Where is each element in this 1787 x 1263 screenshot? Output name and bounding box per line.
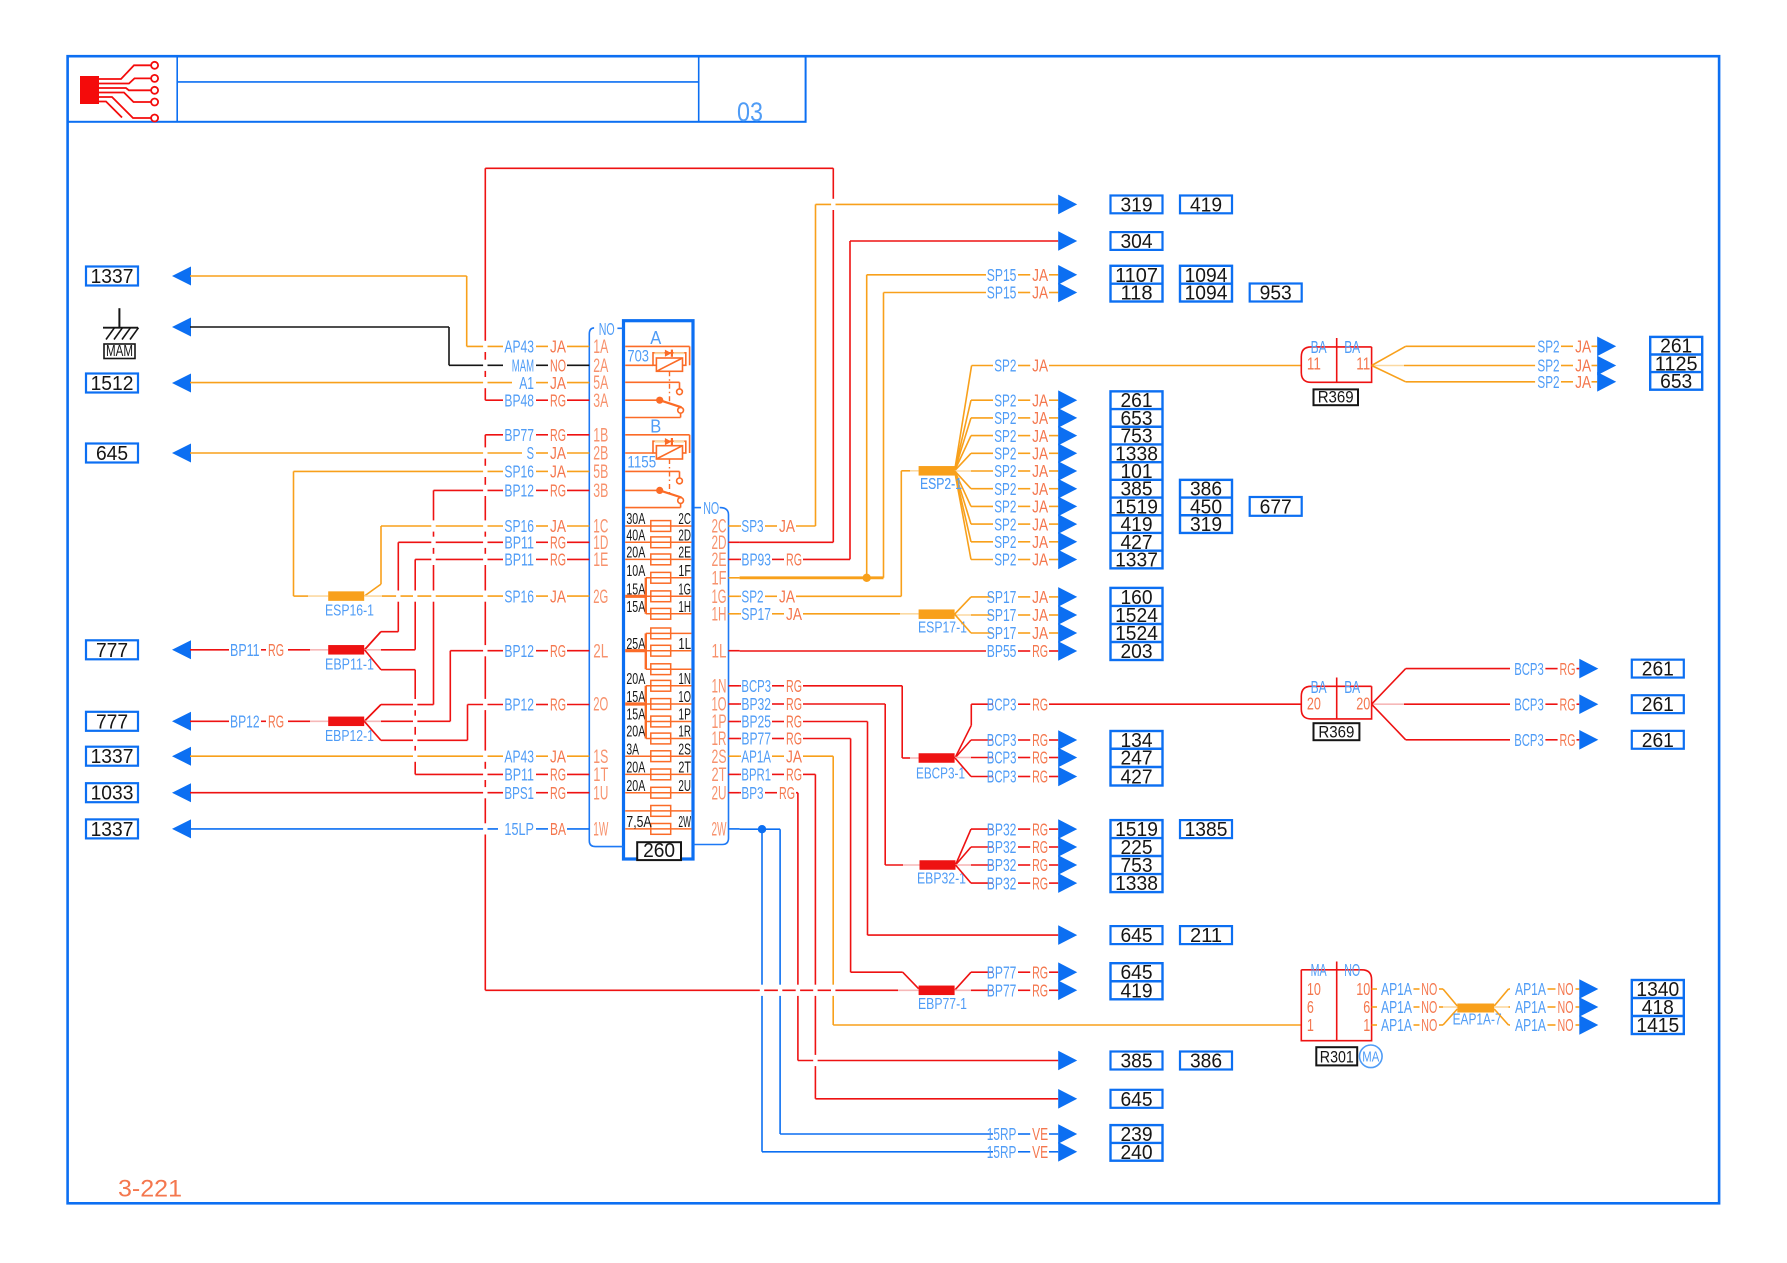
junction dot on 2W wire	[758, 825, 766, 833]
wire SP2-JA fan row 7	[955, 471, 1059, 507]
fuse 20A 2T	[625, 760, 691, 780]
wire SP2-JA fan row 10	[955, 471, 1059, 560]
connector R301	[1301, 960, 1371, 1040]
label SP16-JA (5B)	[504, 462, 566, 482]
label SP2-JA (far right)	[1537, 337, 1597, 357]
label SP16-JA (2G)	[504, 586, 566, 606]
svg-text:1337: 1337	[91, 746, 134, 768]
svg-text:6: 6	[1363, 997, 1370, 1017]
pin 2W (right)	[712, 820, 740, 841]
wire SP2-JA fan row 4	[955, 453, 1059, 471]
net box 645 (row 1099)	[1111, 1089, 1163, 1111]
svg-text:BP93: BP93	[741, 550, 771, 570]
svg-text:ESP2-1: ESP2-1	[920, 476, 962, 493]
feed 2L to bus (thick)	[625, 649, 646, 652]
pin 3A (left)	[593, 391, 608, 412]
wire pin 2D (see BP48 loop) / wire BP93-RG pin 2E up to row 304	[740, 241, 1059, 559]
svg-text:S: S	[527, 443, 534, 463]
fusebox 260 outline	[624, 321, 694, 859]
arrow right (SP2 fan 3)	[1058, 426, 1077, 446]
svg-text:1L: 1L	[678, 636, 691, 653]
pin 1R (right)	[712, 729, 740, 750]
svg-text:ESP16-1: ESP16-1	[325, 603, 374, 620]
svg-text:10: 10	[1356, 979, 1370, 999]
svg-text:2T: 2T	[678, 760, 691, 777]
svg-text:RG: RG	[1560, 659, 1576, 679]
arrow right (BP55)	[1058, 641, 1077, 661]
svg-text:261: 261	[1642, 730, 1674, 752]
wire BPR1-RG pin 2T to row 645	[740, 774, 1059, 1098]
svg-text:15RP: 15RP	[987, 1142, 1017, 1162]
svg-text:261: 261	[1642, 694, 1674, 716]
svg-text:3A: 3A	[593, 391, 608, 412]
arrow right (SP15 row1)	[1058, 265, 1077, 285]
splice ESP2-1 label overlay	[920, 476, 962, 493]
wire pin 1F to SP15 rows (junction)	[740, 275, 986, 578]
arrow right (645 lower row)	[1058, 1089, 1077, 1109]
svg-text:A: A	[650, 328, 661, 348]
net box 777 (EBP11-1)	[86, 640, 138, 662]
svg-text:SP2: SP2	[994, 356, 1016, 376]
svg-text:ESP17-1: ESP17-1	[918, 620, 967, 637]
arrow right (SP2 fan 2)	[1058, 408, 1077, 428]
svg-text:419: 419	[1190, 194, 1222, 216]
arrow right (BP32)	[1058, 837, 1077, 857]
label SP2-JA (far right)	[1537, 356, 1597, 376]
svg-text:240: 240	[1120, 1142, 1152, 1164]
label BP77-RG (fan)	[987, 981, 1048, 1001]
svg-text:2W: 2W	[678, 814, 691, 831]
pin 2A (left)	[593, 356, 608, 377]
arrow right (319 row)	[1058, 195, 1077, 215]
pin 1S (left)	[593, 747, 608, 768]
svg-text:RG: RG	[550, 550, 566, 570]
pin 1N (right)	[712, 676, 740, 697]
svg-text:15LP: 15LP	[504, 819, 534, 839]
fuse 3A 2S	[625, 741, 691, 761]
svg-text:15A: 15A	[626, 707, 645, 724]
wire MAM-NO to pin 2A	[190, 327, 589, 365]
svg-text:RG: RG	[1032, 694, 1048, 714]
wire SP3-JA pin 2C up to row 319	[740, 204, 1059, 526]
svg-text:10A: 10A	[626, 563, 645, 580]
svg-text:653: 653	[1660, 371, 1692, 393]
arrow left (777 upper)	[172, 640, 191, 659]
svg-text:JA: JA	[1032, 283, 1048, 303]
svg-text:EBP11-1: EBP11-1	[325, 656, 374, 673]
label BP25-RG (1P)	[741, 712, 802, 732]
arrow right (BP32)	[1058, 819, 1077, 839]
svg-text:118: 118	[1120, 283, 1152, 305]
label SP2-JA (fan 8)	[994, 514, 1048, 534]
label SP17-JA (fan)	[987, 605, 1049, 625]
splice ESP2-1	[919, 466, 962, 493]
label SP15-JA (row 1)	[987, 265, 1058, 285]
svg-text:1512: 1512	[91, 373, 134, 395]
svg-text:SP2: SP2	[1537, 337, 1559, 357]
svg-text:JA: JA	[550, 443, 566, 463]
wires BCP3-RG from R369 lower to arrows	[1372, 669, 1510, 740]
label BPR1-RG (2T)	[741, 765, 802, 785]
splice EBCP3-1 fan wires	[955, 704, 1058, 776]
svg-text:261: 261	[1642, 659, 1674, 681]
svg-text:386: 386	[1190, 1051, 1222, 1073]
label 15RP-VE	[987, 1124, 1048, 1144]
svg-text:BPS1: BPS1	[504, 783, 534, 803]
sheet reference 3-221	[118, 1176, 182, 1203]
harness logo icon	[80, 62, 158, 122]
svg-text:1155: 1155	[627, 454, 656, 472]
svg-text:JA: JA	[1575, 372, 1591, 392]
relay A component number 703	[627, 347, 649, 365]
wire 15LP-BA to pin 1W	[190, 828, 589, 830]
svg-text:RG: RG	[1032, 981, 1048, 1001]
svg-text:NO: NO	[1344, 960, 1360, 980]
wire SP2-JA fan row 6	[955, 471, 1059, 489]
svg-text:SP17: SP17	[987, 587, 1017, 607]
net boxes 1094/1094 stack	[1180, 265, 1232, 305]
connector R369 (upper) designation box	[1314, 389, 1359, 407]
label BP12-RG (3B)	[504, 481, 566, 501]
label SP3-JA (2C)	[741, 516, 795, 536]
arrow left (MAM)	[172, 318, 191, 337]
svg-text:1L: 1L	[712, 641, 727, 662]
connector R301 designation box	[1316, 1047, 1357, 1066]
svg-text:2E: 2E	[678, 545, 691, 562]
wire BP11-RG pin 1T	[415, 773, 589, 775]
arrow right (645/211 row)	[1058, 925, 1077, 945]
arrow right (15RP)	[1058, 1124, 1077, 1144]
svg-text:AP43: AP43	[504, 746, 534, 766]
wire SP2-JA pin 1G to splice ESP2-1	[740, 471, 919, 597]
net boxes 261/1125/653 stack	[1650, 336, 1702, 393]
pin 2T (right)	[712, 765, 740, 786]
sheet number 03	[737, 97, 763, 127]
label BP48-RG	[504, 390, 566, 410]
arrow right (SP2 fan 7)	[1058, 497, 1077, 517]
relay A label	[650, 328, 661, 348]
pin 1A (left)	[593, 337, 608, 358]
svg-text:645: 645	[1120, 925, 1152, 947]
connector R369 (upper, SP2)	[1301, 337, 1371, 383]
pin 2B (left)	[593, 444, 608, 465]
net boxes 386/450/319 stack	[1180, 479, 1232, 536]
svg-text:20A: 20A	[626, 671, 645, 688]
svg-text:1A: 1A	[593, 337, 608, 358]
label SP16-JA (1C)	[504, 516, 566, 536]
pin 1B (left)	[593, 425, 608, 446]
svg-text:JA: JA	[786, 746, 802, 766]
svg-text:RG: RG	[550, 695, 566, 715]
label BCP3-RG (far right)	[1514, 694, 1579, 714]
label SP2-JA (far right)	[1537, 372, 1597, 392]
svg-text:SP17: SP17	[987, 623, 1017, 643]
net box 645 (row 935)	[1111, 925, 1163, 947]
svg-text:JA: JA	[1032, 623, 1048, 643]
wire SP16-JA to pin 2G	[364, 595, 589, 597]
pin 1D (left)	[593, 533, 608, 554]
svg-text:RG: RG	[1032, 641, 1048, 661]
svg-text:2L: 2L	[593, 641, 608, 662]
svg-text:JA: JA	[1575, 337, 1591, 357]
svg-text:777: 777	[96, 640, 128, 662]
svg-text:10: 10	[1307, 979, 1321, 999]
svg-text:RG: RG	[268, 712, 284, 732]
svg-text:MA: MA	[1311, 960, 1327, 980]
svg-text:RG: RG	[1032, 837, 1048, 857]
svg-text:BP55: BP55	[987, 641, 1017, 661]
arrow right (SP17)	[1058, 605, 1077, 625]
svg-text:2C: 2C	[678, 511, 691, 528]
wire BP11-RG into splice EBP11-1	[190, 649, 328, 651]
arrow right (SP2 fan 4)	[1058, 444, 1077, 464]
wire AP1A-JA pin 2S to connector R301	[740, 756, 1302, 1025]
svg-text:VE: VE	[1032, 1142, 1048, 1162]
svg-text:2O: 2O	[593, 695, 608, 716]
pin 3B (left)	[593, 481, 608, 502]
wire BP12-RG into splice EBP12-1	[190, 720, 328, 722]
fuse unlabeled	[625, 806, 691, 817]
arrow right (AP1A)	[1579, 979, 1598, 999]
svg-text:1N: 1N	[678, 671, 691, 688]
pin 1U (left)	[593, 783, 608, 804]
arrow right (far BCP3)	[1579, 730, 1598, 750]
svg-text:1E: 1E	[593, 550, 608, 571]
label BCP3-RG (far right)	[1514, 730, 1579, 750]
svg-text:645: 645	[96, 443, 128, 465]
svg-text:777: 777	[96, 711, 128, 733]
fuse 15A 1P	[626, 707, 691, 727]
relay B label	[650, 417, 661, 437]
label BCP3-RG (far right)	[1514, 659, 1579, 679]
svg-text:JA: JA	[1032, 550, 1048, 570]
svg-text:3A: 3A	[626, 741, 639, 758]
net box 304	[1111, 231, 1163, 253]
svg-text:SP17: SP17	[741, 604, 771, 624]
svg-text:1337: 1337	[91, 819, 134, 841]
net box 261 (far)	[1632, 730, 1684, 752]
svg-text:BCP3: BCP3	[1514, 730, 1544, 750]
wire crossing gaps	[396, 199, 835, 1066]
svg-text:1415: 1415	[1636, 1015, 1679, 1037]
svg-text:2U: 2U	[712, 783, 727, 804]
label SP2-JA (fan 6)	[994, 479, 1048, 499]
pin 1E (left)	[593, 550, 608, 571]
fuse 25A 1L	[626, 636, 691, 656]
svg-text:3B: 3B	[593, 481, 608, 502]
wire BP25-RG pin 1P to row 645/211	[740, 722, 1059, 936]
svg-text:1R: 1R	[678, 724, 691, 741]
net boxes 160/1524/1524/203 stack	[1111, 587, 1163, 663]
svg-text:SP17: SP17	[987, 605, 1017, 625]
svg-text:385: 385	[1120, 1051, 1152, 1073]
net box 319	[1111, 194, 1163, 216]
wire AP43-JA to pin 1A	[190, 276, 589, 346]
pin 1T (left)	[593, 765, 608, 786]
splice EBP32-1	[917, 860, 966, 887]
svg-text:SP2: SP2	[1537, 372, 1559, 392]
pin 2G (left)	[593, 587, 608, 608]
wire BP77-RG pin 1B down to splice EBP77-1	[485, 435, 918, 991]
fuse bus bars (fusebox internal)	[645, 578, 647, 739]
svg-text:BP12: BP12	[230, 712, 260, 732]
net boxes 1340/418/1415 stack	[1632, 979, 1684, 1037]
wire SP2-JA fan row 5	[955, 470, 1059, 472]
arrow right (15RP)	[1058, 1142, 1077, 1162]
net box 1512 (row 5A)	[86, 373, 138, 395]
svg-text:AP1A: AP1A	[1515, 979, 1546, 999]
wire SP2-JA fan row 3	[955, 436, 1059, 471]
net box 386	[1180, 1051, 1232, 1073]
arrow left (1337 row 1S)	[172, 747, 191, 766]
wire BP77-RG pin 1R to splice EBP77-1	[740, 739, 919, 989]
arrow right (SP17)	[1058, 587, 1077, 607]
arrow right (SP17)	[1058, 623, 1077, 643]
svg-text:703: 703	[627, 347, 649, 365]
svg-text:BP12: BP12	[504, 641, 534, 661]
svg-text:2W: 2W	[712, 820, 727, 841]
svg-text:20A: 20A	[626, 760, 645, 777]
relay B component number 1155	[627, 454, 656, 472]
svg-text:5B: 5B	[593, 462, 608, 483]
net boxes 134/247/427 stack	[1111, 730, 1163, 789]
net box 1337 (row 1S)	[86, 746, 138, 768]
svg-text:JA: JA	[550, 462, 566, 482]
arrow right (BP32)	[1058, 873, 1077, 893]
svg-text:20: 20	[1356, 694, 1370, 714]
arrow right (SP2 fan 5)	[1058, 461, 1077, 481]
label AP1A-JA (2S)	[741, 746, 802, 766]
svg-text:304: 304	[1120, 231, 1152, 253]
arrow right (SP2 fan 8)	[1058, 514, 1077, 534]
svg-text:1F: 1F	[678, 563, 691, 580]
svg-text:BPR1: BPR1	[741, 765, 771, 785]
label BP12-RG (west)	[230, 712, 284, 732]
arrow left (777 lower)	[172, 712, 191, 731]
wire BP3-RG pin 2U to row 385/386	[740, 793, 1059, 1061]
svg-text:RG: RG	[1560, 694, 1576, 714]
fuse 30A 2C	[625, 511, 691, 531]
pin 1W (left)	[593, 820, 608, 841]
label BP32-RG (fan)	[987, 819, 1048, 839]
svg-text:AP1A: AP1A	[1381, 997, 1412, 1017]
svg-text:AP1A: AP1A	[1381, 1015, 1412, 1035]
arrow right (SP2 fan 10)	[1058, 550, 1077, 570]
arrow right (AP1A)	[1579, 997, 1598, 1017]
fuse 20A 1N	[626, 671, 691, 691]
wire BP12-RG pin 3B down to splice EBP12-1	[364, 490, 589, 721]
wires AP1A-NO from EAP1A-7 to arrows	[1494, 979, 1579, 1035]
svg-text:RG: RG	[786, 676, 802, 696]
svg-text:20A: 20A	[626, 778, 645, 795]
net box 1385	[1180, 819, 1232, 841]
wire SP2-JA from ESP2-1 to connector R369	[955, 366, 1302, 471]
svg-text:NO: NO	[1421, 1015, 1437, 1035]
svg-text:2G: 2G	[593, 587, 608, 608]
svg-text:211: 211	[1190, 925, 1222, 947]
svg-text:EAP1A-7: EAP1A-7	[1453, 1012, 1502, 1029]
wire S-JA to pin 2B	[190, 452, 589, 454]
svg-text:R301: R301	[1320, 1048, 1354, 1066]
svg-text:JA: JA	[1032, 587, 1048, 607]
svg-text:20A: 20A	[626, 724, 645, 741]
svg-text:15A: 15A	[626, 599, 645, 616]
svg-text:BP12: BP12	[504, 481, 534, 501]
svg-text:RG: RG	[1032, 962, 1048, 982]
svg-text:RG: RG	[786, 550, 802, 570]
svg-text:1O: 1O	[678, 689, 691, 706]
svg-text:NO: NO	[1558, 1015, 1574, 1035]
arrow right (BP77)	[1058, 981, 1077, 1001]
svg-text:BP11: BP11	[230, 640, 260, 660]
svg-text:BCP3: BCP3	[987, 748, 1017, 768]
svg-text:EBCP3-1: EBCP3-1	[916, 765, 965, 782]
svg-text:AP1A: AP1A	[1381, 979, 1412, 999]
arrow right (far BCP3)	[1579, 659, 1598, 679]
arrow right (BP77)	[1058, 962, 1077, 982]
svg-text:BP11: BP11	[504, 550, 534, 570]
net boxes 239/240 stack	[1111, 1124, 1163, 1164]
svg-text:677: 677	[1260, 496, 1292, 518]
arrow right (BCP3)	[1058, 748, 1077, 768]
label BP11-RG (west)	[230, 640, 284, 660]
svg-text:BCP3: BCP3	[987, 694, 1017, 714]
svg-text:SP3: SP3	[741, 516, 763, 536]
pin 2S (right)	[712, 747, 740, 768]
header title block	[68, 56, 806, 122]
svg-text:BCP3: BCP3	[1514, 694, 1544, 714]
wire SP2-JA fan row 8	[955, 471, 1059, 524]
svg-text:6: 6	[1307, 997, 1314, 1017]
splice ESP17-1 fan wires	[955, 597, 1059, 633]
svg-text:1U: 1U	[593, 783, 608, 804]
svg-text:BCP3: BCP3	[741, 676, 771, 696]
arrow left (1337 row 1W)	[172, 819, 191, 838]
svg-text:RG: RG	[550, 390, 566, 410]
svg-text:30A: 30A	[626, 511, 645, 528]
net box 261 (far)	[1632, 694, 1684, 716]
label 15LP-BA	[504, 819, 566, 839]
svg-text:2S: 2S	[678, 741, 691, 758]
label SP2-JA (fan 3)	[994, 426, 1048, 446]
svg-text:40A: 40A	[626, 528, 645, 545]
svg-text:MA: MA	[1362, 1050, 1379, 1066]
svg-text:RG: RG	[779, 783, 795, 803]
svg-text:3-221: 3-221	[118, 1176, 182, 1203]
label BCP3-RG (to R369)	[987, 694, 1048, 714]
label SP17-JA (1H)	[741, 604, 802, 624]
pin 2D (right)	[712, 533, 740, 554]
svg-text:11: 11	[1307, 353, 1321, 373]
svg-text:JA: JA	[550, 746, 566, 766]
svg-text:AP1A: AP1A	[1515, 997, 1546, 1017]
label SP15-JA (row 2)	[987, 283, 1058, 303]
svg-text:1: 1	[1307, 1015, 1314, 1035]
arrow right (BP32)	[1058, 855, 1077, 875]
arrow left (1033)	[172, 783, 191, 802]
svg-text:1338: 1338	[1115, 873, 1158, 895]
net box 645 (row 2B)	[86, 443, 138, 465]
fuse unlabeled	[646, 664, 692, 675]
arrow right (BCP3)	[1058, 730, 1077, 750]
wire SP17-JA pin 1H to splice ESP17-1	[740, 613, 919, 615]
connector R369 (lower) designation box	[1314, 723, 1360, 741]
svg-text:319: 319	[1190, 514, 1222, 536]
connector R301 MA circle	[1360, 1045, 1383, 1068]
pin 1C (left)	[593, 517, 608, 538]
svg-text:BP12: BP12	[504, 695, 534, 715]
fuse 15A 1G	[626, 582, 691, 602]
